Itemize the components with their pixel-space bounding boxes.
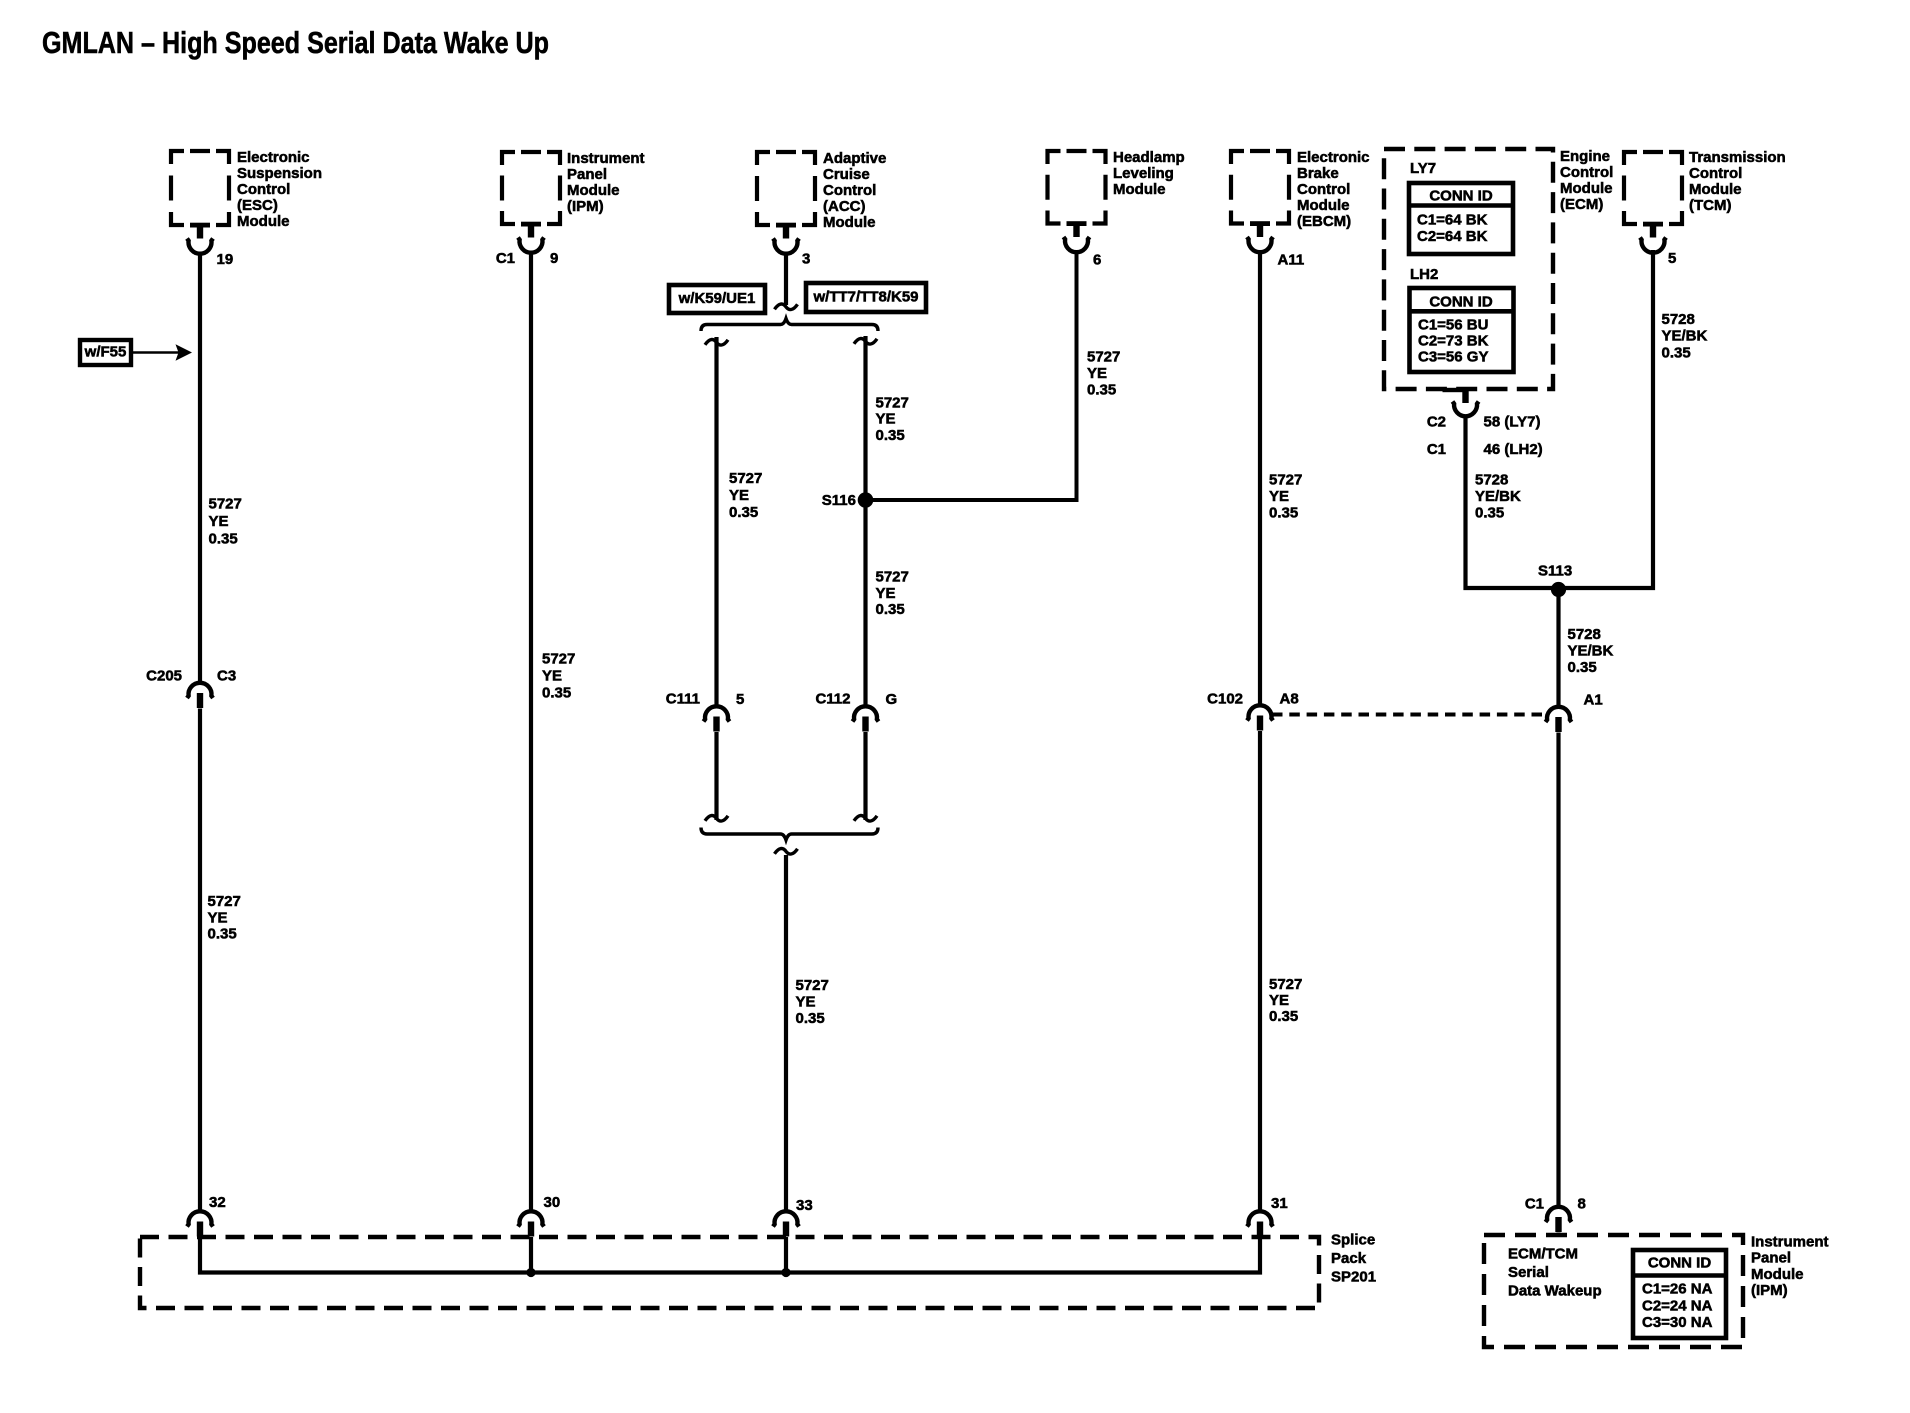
svg-text:w/K59/UE1: w/K59/UE1 — [678, 290, 756, 307]
svg-text:5727: 5727 — [876, 395, 909, 412]
svg-text:0.35: 0.35 — [729, 504, 758, 521]
svg-text:C102: C102 — [1207, 691, 1243, 708]
svg-text:0.35: 0.35 — [209, 531, 238, 548]
svg-text:A11: A11 — [1278, 252, 1305, 269]
svg-text:LY7: LY7 — [1410, 160, 1436, 177]
svg-text:33: 33 — [796, 1197, 813, 1214]
svg-text:30: 30 — [544, 1194, 561, 1211]
svg-text:0.35: 0.35 — [1568, 659, 1597, 676]
svg-text:YE: YE — [1269, 992, 1289, 1009]
svg-text:YE: YE — [796, 994, 816, 1011]
svg-text:5: 5 — [736, 691, 744, 708]
svg-text:LH2: LH2 — [1410, 266, 1438, 283]
svg-text:w/TT7/TT8/K59: w/TT7/TT8/K59 — [812, 289, 918, 306]
svg-text:C2=64 BK: C2=64 BK — [1417, 228, 1488, 245]
svg-text:Serial: Serial — [1508, 1264, 1549, 1281]
svg-text:C2: C2 — [1427, 414, 1446, 431]
svg-text:Module: Module — [1297, 197, 1350, 214]
svg-text:58 (LY7): 58 (LY7) — [1484, 414, 1541, 431]
svg-text:(IPM): (IPM) — [1751, 1282, 1788, 1299]
svg-text:Brake: Brake — [1297, 165, 1339, 182]
svg-text:C111: C111 — [666, 691, 700, 708]
svg-text:0.35: 0.35 — [876, 427, 905, 444]
svg-text:Panel: Panel — [567, 166, 607, 183]
svg-text:(ACC): (ACC) — [823, 198, 866, 215]
svg-text:Module: Module — [823, 214, 876, 231]
svg-text:5728: 5728 — [1662, 311, 1695, 328]
svg-text:A1: A1 — [1584, 692, 1603, 709]
svg-text:C2=73 BK: C2=73 BK — [1418, 333, 1489, 350]
svg-text:CONN ID: CONN ID — [1429, 294, 1493, 311]
svg-text:CONN ID: CONN ID — [1648, 1255, 1712, 1272]
svg-text:S113: S113 — [1538, 563, 1572, 580]
svg-text:Control: Control — [1560, 164, 1613, 181]
svg-text:YE: YE — [876, 411, 896, 428]
svg-text:0.35: 0.35 — [1269, 505, 1298, 522]
svg-text:32: 32 — [209, 1194, 226, 1211]
svg-text:YE: YE — [542, 668, 562, 685]
svg-text:(ESC): (ESC) — [237, 197, 278, 214]
svg-text:C112: C112 — [815, 691, 850, 708]
svg-text:Control: Control — [237, 181, 290, 198]
svg-text:46 (LH2): 46 (LH2) — [1484, 441, 1543, 458]
svg-text:0.35: 0.35 — [208, 926, 237, 943]
svg-text:YE: YE — [208, 910, 228, 927]
svg-text:0.35: 0.35 — [1087, 382, 1116, 399]
svg-text:C1: C1 — [1427, 441, 1446, 458]
svg-text:YE: YE — [876, 585, 896, 602]
svg-text:C1=64 BK: C1=64 BK — [1417, 212, 1488, 229]
svg-text:5727: 5727 — [876, 569, 909, 586]
svg-text:Engine: Engine — [1560, 148, 1610, 165]
svg-text:Leveling: Leveling — [1113, 165, 1174, 182]
svg-text:0.35: 0.35 — [1475, 505, 1504, 522]
svg-text:5728: 5728 — [1568, 626, 1601, 643]
svg-text:SP201: SP201 — [1331, 1269, 1376, 1286]
svg-text:0.35: 0.35 — [876, 601, 905, 618]
svg-text:Suspension: Suspension — [237, 165, 322, 182]
svg-text:Instrument: Instrument — [567, 150, 645, 167]
svg-text:5728: 5728 — [1475, 472, 1508, 489]
svg-text:Electronic: Electronic — [237, 149, 310, 166]
svg-text:0.35: 0.35 — [1269, 1008, 1298, 1025]
svg-text:(EBCM): (EBCM) — [1297, 213, 1351, 230]
svg-text:C3=56 GY: C3=56 GY — [1418, 349, 1488, 366]
svg-text:YE/BK: YE/BK — [1568, 643, 1614, 660]
svg-text:5: 5 — [1668, 250, 1676, 267]
svg-text:0.35: 0.35 — [1662, 345, 1691, 362]
svg-text:C1: C1 — [496, 250, 515, 267]
svg-text:YE: YE — [1269, 488, 1289, 505]
svg-text:C1: C1 — [1525, 1196, 1544, 1213]
svg-text:5727: 5727 — [1087, 349, 1120, 366]
svg-text:YE: YE — [1087, 365, 1107, 382]
svg-text:(ECM): (ECM) — [1560, 196, 1603, 213]
svg-text:0.35: 0.35 — [542, 685, 571, 702]
svg-text:5727: 5727 — [209, 496, 242, 513]
svg-text:Control: Control — [823, 182, 876, 199]
svg-text:YE: YE — [209, 513, 229, 530]
svg-text:5727: 5727 — [796, 977, 829, 994]
svg-text:ECM/TCM: ECM/TCM — [1508, 1246, 1578, 1263]
svg-text:9: 9 — [550, 250, 558, 267]
svg-text:C205: C205 — [146, 668, 182, 685]
svg-text:(TCM): (TCM) — [1689, 197, 1731, 214]
svg-text:5727: 5727 — [208, 893, 241, 910]
svg-text:Data Wakeup: Data Wakeup — [1508, 1283, 1602, 1300]
svg-text:Transmission: Transmission — [1689, 149, 1786, 166]
svg-text:Control: Control — [1689, 165, 1742, 182]
svg-text:Instrument: Instrument — [1751, 1234, 1829, 1251]
svg-text:(IPM): (IPM) — [567, 198, 604, 215]
svg-text:5727: 5727 — [1269, 976, 1302, 993]
svg-text:CONN ID: CONN ID — [1429, 188, 1493, 205]
svg-text:C1=26 NA: C1=26 NA — [1642, 1281, 1713, 1298]
svg-text:Panel: Panel — [1751, 1250, 1791, 1267]
svg-text:Module: Module — [567, 182, 620, 199]
svg-text:Module: Module — [1689, 181, 1742, 198]
svg-text:Pack: Pack — [1331, 1250, 1367, 1267]
svg-text:C2=24 NA: C2=24 NA — [1642, 1297, 1713, 1314]
svg-text:Adaptive: Adaptive — [823, 150, 886, 167]
svg-text:w/F55: w/F55 — [84, 344, 127, 361]
svg-text:GMLAN – High Speed Serial Data: GMLAN – High Speed Serial Data Wake Up — [42, 26, 549, 60]
svg-text:A8: A8 — [1280, 691, 1299, 708]
svg-text:5727: 5727 — [729, 470, 762, 487]
svg-text:Module: Module — [1751, 1266, 1804, 1283]
svg-text:YE/BK: YE/BK — [1475, 488, 1521, 505]
svg-text:C1=56 BU: C1=56 BU — [1418, 316, 1488, 333]
svg-text:YE: YE — [729, 487, 749, 504]
svg-text:C3: C3 — [217, 668, 236, 685]
svg-text:5727: 5727 — [1269, 472, 1302, 489]
svg-text:C3=30 NA: C3=30 NA — [1642, 1314, 1713, 1331]
svg-text:YE/BK: YE/BK — [1662, 328, 1708, 345]
svg-text:19: 19 — [217, 251, 234, 268]
svg-text:8: 8 — [1578, 1196, 1586, 1213]
svg-text:Cruise: Cruise — [823, 166, 870, 183]
svg-text:S116: S116 — [822, 492, 856, 509]
svg-text:Module: Module — [237, 213, 290, 230]
svg-text:G: G — [886, 691, 898, 708]
svg-text:Headlamp: Headlamp — [1113, 149, 1185, 166]
svg-text:5727: 5727 — [542, 651, 575, 668]
svg-text:Splice: Splice — [1331, 1232, 1375, 1249]
svg-text:0.35: 0.35 — [796, 1010, 825, 1027]
svg-text:Module: Module — [1560, 180, 1613, 197]
svg-text:31: 31 — [1271, 1195, 1288, 1212]
svg-text:Control: Control — [1297, 181, 1350, 198]
svg-text:Electronic: Electronic — [1297, 149, 1370, 166]
svg-text:6: 6 — [1093, 252, 1101, 269]
svg-text:3: 3 — [802, 251, 810, 268]
svg-text:Module: Module — [1113, 181, 1166, 198]
